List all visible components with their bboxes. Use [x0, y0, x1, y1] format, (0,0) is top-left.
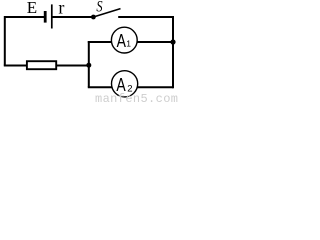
wire top-left from battery to corner	[5, 16, 44, 18]
ammeter A2	[112, 71, 138, 97]
svg-text:S: S	[96, 0, 102, 16]
wire A2 branch right segment	[137, 86, 173, 88]
svg-text:r: r	[58, 0, 64, 18]
svg-text:manfen5.com: manfen5.com	[95, 92, 178, 103]
wire middle vertical (A1/A2 left join)	[88, 41, 90, 87]
wire A2 branch left segment	[88, 86, 113, 88]
ammeter A1	[111, 27, 137, 53]
node junction right (A1 branch to right wire)	[170, 39, 175, 44]
wire A1 branch right segment	[137, 41, 173, 43]
battery cell E with internal resistance r: short thick negative plate	[44, 11, 47, 23]
wire into resistor left end	[4, 65, 27, 67]
resistor R (rectangle box)	[27, 61, 56, 69]
battery cell: long thin positive plate	[51, 4, 53, 28]
wire A1 branch left segment	[88, 41, 112, 43]
wire right side vertical	[172, 16, 174, 88]
wire battery to switch	[52, 16, 92, 18]
svg-text:1: 1	[126, 39, 131, 49]
switch S pivot dot	[91, 15, 96, 20]
wire left side vertical	[4, 16, 6, 66]
switch S blade (open)	[93, 9, 120, 17]
wire switch to top-right corner	[118, 16, 174, 18]
wire resistor to left junction	[56, 65, 89, 67]
svg-text:A: A	[117, 31, 126, 51]
svg-text:E: E	[27, 0, 37, 17]
node junction left (resistor wire joins middle vertical)	[86, 63, 91, 68]
